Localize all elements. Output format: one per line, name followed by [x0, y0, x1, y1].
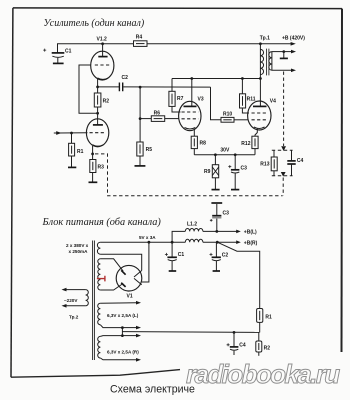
resistor R2 (psu) [256, 332, 270, 355]
wire cathode rail [194, 154, 255, 156]
input arrow [54, 131, 62, 135]
svg-text:radiobooka.ru: radiobooka.ru [186, 359, 340, 389]
svg-text:+B (420V): +B (420V) [282, 36, 305, 42]
resistor R2 [94, 87, 109, 113]
svg-text:R1: R1 [77, 149, 84, 155]
svg-text:R8: R8 [200, 141, 207, 147]
svg-text:C2: C2 [222, 253, 229, 259]
svg-text:V4: V4 [270, 98, 276, 104]
resistor R6 [140, 110, 179, 121]
wire 5V bottom to filament [100, 254, 141, 270]
node [139, 117, 142, 120]
ground [169, 270, 177, 272]
svg-text:R3: R3 [98, 165, 105, 171]
wire +B top rail left [58, 44, 134, 53]
svg-text:R2: R2 [103, 98, 110, 104]
svg-text:2 x 380V x: 2 x 380V x [66, 243, 89, 248]
winding primary ~220V [62, 288, 89, 320]
svg-text:R10: R10 [223, 111, 232, 117]
wire +B(L) [203, 230, 257, 236]
node [241, 77, 244, 80]
wire secondary top [284, 50, 296, 54]
wire anode rail [172, 78, 260, 80]
dashed rail bottom [272, 175, 293, 177]
wire input [58, 132, 88, 134]
node [171, 241, 174, 244]
dashed feedback from secondary [281, 72, 286, 152]
dashed wire with arrowhead [281, 172, 286, 196]
winding 6.3V R [98, 336, 141, 362]
ground [212, 189, 220, 191]
node [259, 77, 262, 80]
tube V1.2 upper triode [91, 37, 114, 87]
svg-text:Блок питания (оба канала): Блок питания (оба канала) [42, 217, 162, 228]
svg-text:R5: R5 [146, 147, 153, 153]
svg-text:Схема электриче: Схема электриче [110, 383, 195, 395]
svg-text:6,3V x 2,5A (L): 6,3V x 2,5A (L) [107, 313, 139, 318]
svg-text:Тр.2: Тр.2 [69, 314, 79, 319]
wire rectifier output [100, 241, 185, 243]
wire [139, 87, 141, 142]
ground [135, 165, 146, 167]
wire filament to output [142, 242, 149, 282]
svg-text:R4: R4 [136, 34, 143, 40]
tube V1.2 lower triode [86, 113, 108, 154]
resistor R9 [204, 155, 219, 189]
svg-text:~220V: ~220V [64, 298, 78, 303]
tube V3 [179, 79, 204, 137]
resistor R5 [137, 142, 152, 165]
capacitor C1 [43, 48, 71, 62]
red center tap mark [97, 276, 105, 282]
winding 5V [97, 235, 156, 254]
svg-text:C4: C4 [297, 158, 304, 164]
dashed rail top R13/C4 [272, 149, 293, 151]
resistor R10 [221, 111, 248, 122]
svg-text:5V x 3A: 5V x 3A [139, 235, 156, 240]
node [70, 132, 73, 135]
svg-text:C1: C1 [178, 252, 185, 258]
choke L1.2 [172, 222, 203, 243]
ground [280, 52, 288, 59]
svg-text:+B(R): +B(R) [244, 240, 258, 246]
node [190, 77, 193, 80]
title: Блок питания (оба канала) [42, 217, 162, 228]
svg-text:Тр.1: Тр.1 [260, 35, 270, 41]
transformer Tr2 core [93, 241, 95, 361]
svg-text:Усилитель (один канал): Усилитель (один канал) [44, 18, 145, 29]
wire heater center to bias node [122, 331, 259, 334]
heater tie node [121, 326, 141, 338]
tube V4 [248, 98, 277, 136]
resistor R8 [191, 136, 206, 155]
wire +B(R) [203, 240, 258, 246]
winding 6.3V L [98, 301, 141, 328]
svg-text:R2: R2 [264, 346, 271, 352]
capacitor C2 (psu) [210, 242, 229, 270]
node [233, 331, 236, 334]
wire [211, 87, 222, 120]
node: V1.2 cathode junction [96, 86, 99, 89]
ground [68, 166, 76, 168]
svg-text:L1.2: L1.2 [187, 222, 197, 228]
node A [139, 86, 142, 89]
label +B (420V) [282, 36, 305, 46]
resistor R13 [260, 150, 277, 176]
label 30V [220, 148, 230, 154]
svg-text:C1: C1 [65, 48, 72, 54]
capacitor C3 [228, 155, 247, 189]
resistor R3 [90, 154, 104, 182]
ground [231, 189, 239, 191]
node [148, 241, 151, 244]
winding HV 2x380V [66, 243, 123, 290]
svg-text:R6: R6 [154, 110, 161, 116]
svg-text:R12: R12 [241, 141, 250, 147]
node [234, 153, 237, 156]
title: Усилитель (один канал) [44, 18, 145, 29]
ground [213, 270, 220, 272]
svg-text:V3: V3 [198, 97, 204, 103]
svg-text:+B(L): +B(L) [244, 230, 257, 236]
svg-text:C3: C3 [241, 166, 248, 172]
dashed feedback wire [95, 154, 283, 196]
transformer Tr1 [260, 35, 296, 78]
resistor R7 [169, 79, 184, 113]
node [216, 241, 219, 244]
node [96, 112, 99, 115]
resistor R4 [134, 34, 148, 46]
node [282, 50, 285, 53]
caption: Схема электриче [110, 383, 195, 395]
capacitor C3 (psu) [210, 203, 229, 231]
svg-text:30V: 30V [220, 148, 230, 154]
svg-text:C3: C3 [223, 210, 230, 216]
resistor R11 [240, 79, 256, 114]
resistor R1 (psu) [257, 309, 272, 333]
svg-text:R1: R1 [265, 315, 272, 321]
svg-text:x 250mA: x 250mA [69, 249, 89, 254]
wire [123, 86, 210, 88]
resistor R12 [241, 136, 258, 155]
frame lines (page border) [13, 7, 342, 10]
svg-text:C4: C4 [239, 342, 246, 348]
ground [89, 181, 98, 183]
node [91, 153, 94, 156]
ground [53, 62, 64, 64]
svg-text:R9: R9 [204, 169, 211, 175]
node: V1.2 anode junction [101, 42, 104, 45]
rectifier tube V1 [116, 265, 142, 299]
resistor R1 [69, 133, 84, 167]
node [259, 42, 262, 45]
svg-text:6,3V x 2,5A (R): 6,3V x 2,5A (R) [107, 349, 139, 354]
node [215, 230, 218, 233]
node [214, 153, 217, 156]
capacitor C4 (psu) [227, 332, 246, 355]
capacitor C1 (psu) [165, 242, 185, 270]
svg-text:R7: R7 [177, 96, 184, 102]
wire: V1.2 grid to lower anode [79, 65, 98, 113]
watermark radiobooka.ru [186, 359, 340, 389]
capacitor C4 (feedback) [287, 150, 303, 176]
capacitor C2 [119, 75, 128, 91]
svg-text:C2: C2 [122, 75, 129, 81]
wire V4 anode [259, 79, 261, 107]
svg-text:V1: V1 [127, 293, 133, 299]
wire [98, 86, 119, 88]
svg-text:R13: R13 [260, 162, 269, 168]
wire +B(R) to R1 [217, 242, 259, 308]
svg-text:V1.2: V1.2 [97, 37, 108, 43]
wire +B top rail right [147, 43, 292, 45]
